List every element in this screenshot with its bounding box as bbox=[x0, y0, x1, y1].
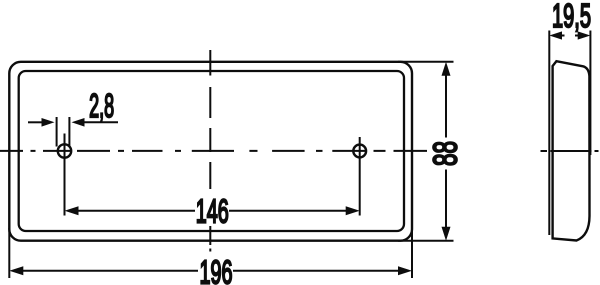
dimension line 19,5 with arrows bbox=[549, 31, 590, 39]
side view body profile bbox=[553, 61, 590, 240]
vertical centerline bbox=[209, 50, 211, 252]
side view extension line left (19,5) bbox=[548, 31, 550, 236]
extension line right (196) bbox=[411, 228, 413, 278]
inner lens outline (front view) bbox=[19, 71, 404, 231]
extension line bottom (88) bbox=[398, 240, 454, 242]
dimension 2,8 right arrow bbox=[72, 118, 119, 127]
extension line top (88) bbox=[398, 61, 454, 63]
side view extension line right (19,5) bbox=[589, 31, 591, 156]
dimension 2,8 left arrow bbox=[28, 118, 55, 127]
extension line left (196) bbox=[8, 228, 10, 278]
side view centerline bbox=[541, 150, 599, 152]
dimension line 88 bbox=[442, 62, 451, 241]
hole H1 (left mounting hole) bbox=[58, 144, 71, 157]
hole H2 vertical crosshair / extension line bbox=[359, 137, 361, 216]
slot extension line left (2,8 feature) bbox=[56, 117, 58, 147]
svg-text:196: 196 bbox=[200, 254, 233, 285]
hole H1 vertical crosshair / extension line bbox=[64, 134, 66, 216]
hole H2 (right mounting hole) bbox=[353, 145, 366, 158]
dimension line 146 bbox=[65, 206, 360, 215]
dimension line 196 bbox=[9, 266, 412, 275]
outer body outline (front view) bbox=[9, 62, 412, 241]
horizontal centerline bbox=[0, 150, 427, 152]
svg-text:146: 146 bbox=[196, 192, 229, 229]
svg-text:88: 88 bbox=[427, 141, 464, 166]
slot extension line right (2,8 feature) bbox=[68, 117, 70, 147]
svg-text:19,5: 19,5 bbox=[552, 0, 591, 34]
svg-text:2,8: 2,8 bbox=[89, 87, 114, 124]
